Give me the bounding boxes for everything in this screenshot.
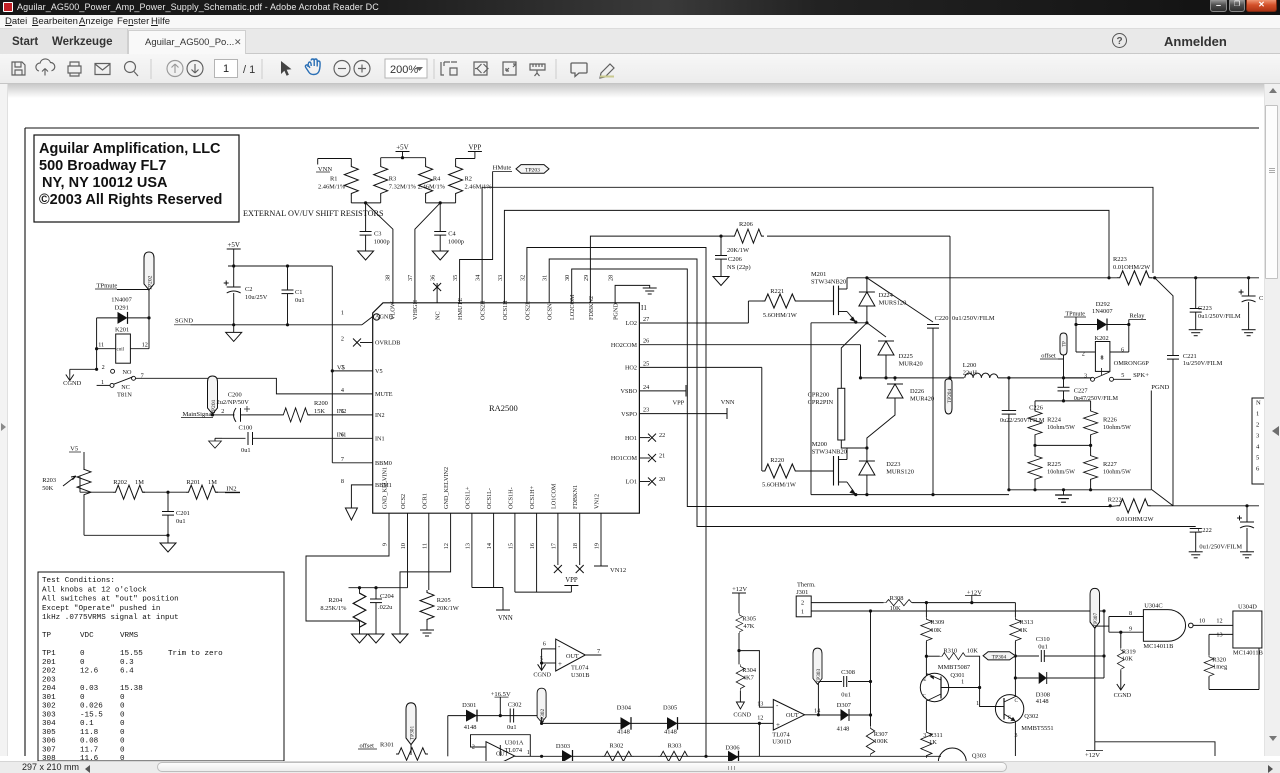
wire pin26 HO2COM to phase — [639, 344, 860, 346]
wire pin30 bus down right (to diode rail) — [572, 269, 706, 507]
svg-text:LO1: LO1 — [626, 479, 637, 486]
svg-text:0.01OHM/2W: 0.01OHM/2W — [1116, 516, 1154, 523]
svg-text:RA2500: RA2500 — [489, 403, 518, 413]
svg-text:204: 204 — [42, 685, 56, 693]
svg-text:0u1: 0u1 — [1038, 644, 1048, 651]
svg-text:OCS2: OCS2 — [400, 494, 407, 509]
svg-text:OUT: OUT — [566, 653, 579, 660]
svg-text:10K: 10K — [967, 648, 978, 655]
zoom out icon — [334, 61, 350, 77]
wire R4-R2 bottom junction — [425, 196, 427, 203]
svg-text:307: 307 — [42, 746, 56, 754]
svg-text:23: 23 — [643, 407, 649, 414]
save icon — [12, 62, 25, 75]
svg-text:R320: R320 — [1212, 657, 1226, 664]
svg-text:VPP: VPP — [565, 577, 578, 584]
opamp U301B TL074 — [556, 639, 586, 671]
svg-text:+: + — [558, 660, 562, 668]
svg-text:31: 31 — [542, 275, 549, 281]
wire pin33 bus to R223 left — [504, 210, 1109, 302]
capacitor C201 — [167, 492, 169, 511]
zoom in icon — [354, 61, 370, 77]
svg-text:All knobs at 12 o'clock: All knobs at 12 o'clock — [42, 586, 147, 594]
capacitor C224 polarized (page edge) — [1248, 278, 1250, 296]
svg-text:D292: D292 — [1096, 301, 1110, 308]
svg-text:U301B: U301B — [571, 672, 589, 679]
wire zobel mid rail — [1035, 444, 1091, 446]
wire BBM0 pin7 — [332, 462, 372, 464]
svg-text:R226: R226 — [1103, 417, 1117, 424]
svg-text:0: 0 — [120, 720, 125, 728]
svg-text:0u1: 0u1 — [507, 724, 517, 731]
svg-text:C200: C200 — [228, 392, 242, 399]
svg-text:47K: 47K — [743, 623, 754, 630]
svg-text:SGND: SGND — [175, 318, 193, 325]
svg-text:8.25K/1%: 8.25K/1% — [320, 605, 347, 612]
svg-text:OCS1L-: OCS1L- — [486, 488, 493, 509]
svg-text:MMBT5087: MMBT5087 — [938, 664, 971, 671]
svg-text:10ohm/5W: 10ohm/5W — [1047, 469, 1075, 476]
svg-text:0u1: 0u1 — [841, 692, 851, 699]
svg-text:TP302: TP302 — [540, 709, 546, 724]
svg-text:50K: 50K — [42, 485, 53, 492]
svg-text:D303: D303 — [556, 743, 570, 750]
svg-text:MC14011B: MC14011B — [1143, 643, 1173, 650]
ground CGND R304 — [736, 702, 744, 709]
svg-text:TL074: TL074 — [571, 665, 589, 672]
svg-text:coil: coil — [117, 348, 125, 353]
svg-text:FDBKN2: FDBKN2 — [588, 296, 595, 320]
svg-text:OCS1H-: OCS1H- — [507, 487, 514, 509]
wire R223 right to caps — [1151, 277, 1260, 279]
test point TP307 — [1090, 588, 1100, 628]
wire pins13-14 to VNN — [471, 513, 473, 587]
wire J301 pin1 right — [811, 610, 1104, 612]
wire R223 rail — [867, 277, 1117, 279]
svg-text:C204: C204 — [380, 593, 395, 600]
wire R221 to M201 gate — [796, 300, 834, 302]
wire pin34 bus to R223 right — [482, 187, 1153, 302]
opamp U301A TL074 (clipped) — [486, 742, 515, 770]
wire zobel bottom rail — [1009, 489, 1151, 491]
svg-text:6: 6 — [1121, 347, 1124, 354]
svg-text:FDBKN1: FDBKN1 — [572, 485, 579, 509]
power VN12 — [594, 565, 608, 567]
svg-text:1meg: 1meg — [1213, 664, 1228, 671]
svg-text:20K/1W: 20K/1W — [727, 247, 750, 254]
svg-text:R307: R307 — [874, 731, 889, 738]
hand icon — [305, 59, 320, 75]
svg-text:OVRLDB: OVRLDB — [375, 340, 400, 347]
wire J301 pin2 to R308 — [811, 602, 883, 604]
svg-text:R220: R220 — [770, 457, 784, 464]
wire pin31 bus down right (C222 line) — [549, 259, 1195, 527]
svg-text:offset: offset — [360, 743, 375, 750]
svg-text:0u1/250V/FILM: 0u1/250V/FILM — [1199, 544, 1242, 551]
svg-text:R303: R303 — [668, 743, 682, 750]
capacitor C1 — [287, 266, 289, 290]
svg-text:NC: NC — [121, 384, 130, 391]
wire pin9 GND_KELVIN1 — [306, 513, 389, 631]
svg-text:0u1/250V/FILM: 0u1/250V/FILM — [952, 315, 995, 322]
svg-text:STW34NB20: STW34NB20 — [812, 449, 847, 456]
svg-text:LO2: LO2 — [626, 320, 637, 327]
page fit icon — [441, 62, 457, 75]
ground below C201 — [160, 543, 176, 552]
svg-text:18: 18 — [572, 543, 579, 549]
svg-text:J301: J301 — [796, 589, 808, 596]
svg-text:NC: NC — [435, 311, 442, 320]
svg-text:201: 201 — [42, 659, 56, 667]
svg-text:OCS2L: OCS2L — [524, 301, 531, 320]
svg-text:I1: I1 — [641, 304, 647, 312]
svg-text:D304: D304 — [617, 705, 632, 712]
wire TPmute to K201 — [117, 289, 149, 291]
svg-text:2.46M/1%: 2.46M/1% — [418, 184, 446, 191]
svg-text:5: 5 — [1256, 455, 1260, 462]
search icon — [125, 62, 136, 73]
svg-text:CGND: CGND — [733, 712, 751, 719]
svg-text:7: 7 — [597, 648, 600, 655]
svg-text:STW34NB20: STW34NB20 — [811, 279, 846, 286]
svg-text:R221: R221 — [770, 288, 784, 295]
svg-text:D307: D307 — [837, 702, 852, 709]
wire C308 row — [817, 682, 819, 716]
svg-text:8: 8 — [1129, 610, 1132, 617]
svg-text:1: 1 — [341, 310, 344, 317]
svg-text:37: 37 — [407, 275, 414, 281]
wire bottom rail 756 — [515, 755, 941, 757]
svg-text:V5: V5 — [337, 364, 346, 371]
mail icon — [95, 64, 110, 75]
svg-text:R1: R1 — [330, 176, 337, 183]
svg-text:0.3: 0.3 — [120, 659, 134, 667]
svg-text:VDC: VDC — [80, 632, 94, 640]
svg-text:33: 33 — [497, 275, 504, 281]
wire R320 bottom to U304D — [1209, 689, 1259, 691]
svg-text:U304C: U304C — [1144, 603, 1162, 610]
svg-text:7.32M/1%: 7.32M/1% — [389, 184, 417, 191]
svg-text:MUR420: MUR420 — [910, 396, 934, 403]
wire x1104 vertical — [1103, 611, 1105, 678]
svg-text:IN2: IN2 — [375, 412, 385, 419]
svg-text:27: 27 — [643, 316, 649, 323]
wire R206 to output node — [949, 236, 951, 378]
wire V5 to pin3 — [332, 370, 372, 372]
svg-text:Trim to zero: Trim to zero — [168, 650, 223, 658]
svg-text:N: N — [1256, 400, 1261, 407]
wire pot bottom rail — [84, 534, 168, 536]
svg-text:offset: offset — [1041, 353, 1056, 360]
wire pin32 bus down right (R222 sense) — [527, 248, 706, 757]
svg-text:E: E — [923, 678, 926, 683]
svg-text:R205: R205 — [437, 597, 451, 604]
ground below C223 — [1189, 330, 1203, 336]
svg-text:13: 13 — [464, 543, 471, 549]
svg-text:302: 302 — [42, 703, 56, 711]
svg-text:TP304: TP304 — [992, 654, 1007, 660]
svg-text:HMUTE: HMUTE — [457, 298, 464, 320]
svg-text:Relay: Relay — [1130, 313, 1146, 320]
svg-text:2: 2 — [341, 336, 344, 343]
svg-text:3: 3 — [1084, 373, 1087, 380]
svg-text:C302: C302 — [508, 702, 522, 709]
ground arrow BBM1 — [345, 508, 357, 520]
svg-text:R202: R202 — [113, 479, 127, 486]
svg-text:R308: R308 — [890, 595, 904, 602]
svg-text:10K: 10K — [931, 627, 942, 634]
svg-text:Except "Operate" pushed in: Except "Operate" pushed in — [42, 605, 160, 613]
ground below C3 — [358, 251, 374, 260]
svg-text:TPmute: TPmute — [1065, 311, 1085, 318]
svg-text:Q303: Q303 — [972, 753, 986, 760]
test point TP304 tag — [983, 652, 1015, 660]
ground below R204 — [352, 634, 368, 643]
svg-text:6.4: 6.4 — [120, 668, 134, 676]
wire pin28 PGND to ground — [615, 285, 650, 302]
svg-text:V5: V5 — [375, 368, 383, 375]
svg-text:R223: R223 — [1113, 256, 1127, 263]
ground below C225 — [1240, 552, 1254, 558]
svg-text:U301D: U301D — [772, 739, 791, 746]
svg-text:0.01OHM/2W: 0.01OHM/2W — [1113, 264, 1151, 271]
svg-text:1u/250V/FILM: 1u/250V/FILM — [1183, 360, 1223, 367]
svg-text:D291: D291 — [115, 305, 129, 312]
ground CGND (switch) — [70, 368, 97, 370]
svg-text:500 Broadway FL7: 500 Broadway FL7 — [39, 158, 166, 174]
svg-text:MUR420: MUR420 — [899, 361, 923, 368]
test point TP204 — [945, 379, 952, 414]
svg-text:TL074: TL074 — [772, 732, 790, 739]
svg-text:R304: R304 — [742, 667, 757, 674]
svg-text:306: 306 — [42, 738, 56, 746]
svg-text:TP202: TP202 — [148, 275, 154, 290]
svg-text:MC14011B: MC14011B — [1233, 650, 1263, 657]
pin18 no-connect — [579, 513, 581, 565]
svg-text:MURS120: MURS120 — [879, 300, 907, 307]
highlighter icon — [600, 64, 614, 78]
wire junction to pin38 (VLOW) — [366, 203, 393, 303]
svg-text:1000p: 1000p — [374, 239, 390, 246]
svg-text:L200: L200 — [963, 362, 977, 369]
test point TP301 — [406, 703, 416, 745]
test point TP205 — [1060, 333, 1067, 355]
svg-text:5: 5 — [1121, 372, 1124, 379]
svg-text:VHIGH: VHIGH — [412, 300, 419, 320]
svg-text:IN2: IN2 — [337, 408, 347, 415]
wire zobel top rail — [1035, 400, 1091, 402]
wire R2 top to VPP — [456, 158, 475, 160]
cloud upload icon — [36, 59, 55, 71]
svg-text:R227: R227 — [1103, 461, 1118, 468]
svg-text:V5: V5 — [70, 446, 79, 453]
svg-text:VNN: VNN — [721, 399, 735, 406]
svg-text:C: C — [1015, 699, 1019, 704]
svg-text:R200: R200 — [314, 400, 328, 407]
select arrow icon — [281, 61, 291, 76]
svg-text:TP307: TP307 — [1093, 613, 1099, 628]
svg-text:M201: M201 — [811, 271, 826, 278]
capacitor C206 — [720, 236, 722, 255]
svg-text:32: 32 — [519, 275, 526, 281]
svg-text:D225: D225 — [899, 353, 913, 360]
wire L200 to output network — [998, 377, 1092, 379]
svg-text:3: 3 — [1015, 733, 1018, 739]
svg-text:4148: 4148 — [664, 729, 677, 736]
svg-text:14: 14 — [814, 708, 820, 715]
svg-text:PGND: PGND — [1151, 384, 1169, 391]
svg-text:4: 4 — [341, 387, 344, 394]
title block box — [34, 135, 239, 222]
wire R222 right diagonal to PGND — [1151, 489, 1173, 506]
ground left of C100 — [215, 437, 222, 439]
svg-text:MUTE: MUTE — [375, 391, 393, 398]
pin21 no-connect — [639, 457, 650, 459]
svg-text:OCS1H: OCS1H — [502, 300, 509, 320]
resistor R2 — [455, 159, 457, 165]
svg-text:0u22/250V/FILM: 0u22/250V/FILM — [1000, 417, 1045, 424]
test point TP302 — [537, 688, 546, 722]
svg-text:12: 12 — [142, 342, 148, 349]
svg-text:VRMS: VRMS — [120, 632, 139, 640]
svg-text:C227: C227 — [1074, 388, 1089, 395]
svg-text:6: 6 — [1256, 466, 1260, 473]
svg-text:TP: TP — [1063, 341, 1068, 347]
svg-text:Test Conditions:: Test Conditions: — [42, 577, 115, 585]
svg-text:LO1COM: LO1COM — [550, 483, 557, 509]
svg-text:11: 11 — [421, 543, 428, 549]
test conditions box — [38, 572, 284, 761]
svg-text:28: 28 — [608, 275, 615, 281]
wire +12V bottom right — [1095, 742, 1215, 756]
wire phase node to L200 — [861, 377, 965, 379]
svg-text:0u1: 0u1 — [176, 518, 186, 525]
svg-text:VPP: VPP — [468, 144, 481, 152]
svg-text:20: 20 — [659, 476, 665, 483]
svg-text:TP204: TP204 — [947, 389, 953, 404]
wire U301A +input — [499, 745, 501, 756]
svg-text:C206: C206 — [728, 256, 742, 263]
svg-text:200%: 200% — [390, 64, 418, 76]
svg-text:Therm.: Therm. — [797, 582, 816, 589]
wire PGND vertical — [1150, 391, 1152, 490]
svg-text:OCS1H+: OCS1H+ — [529, 485, 536, 509]
svg-text:2: 2 — [1256, 422, 1259, 429]
prev page icon — [167, 61, 183, 77]
svg-text:22: 22 — [659, 432, 665, 439]
wire R310 to Q302 base — [966, 656, 1001, 706]
svg-text:0: 0 — [120, 729, 125, 737]
wire U301D pin12 corner to bottom rail — [758, 723, 760, 756]
svg-text:+12V: +12V — [1085, 752, 1100, 759]
svg-text:203: 203 — [42, 676, 56, 684]
ground below C2 — [233, 325, 235, 333]
svg-text:21: 21 — [659, 453, 665, 460]
comment bubble icon — [571, 63, 587, 77]
power VNN bottom — [496, 609, 510, 611]
svg-text:R310: R310 — [943, 648, 957, 655]
wire U301A feedback loop — [471, 735, 531, 756]
svg-text:OUT: OUT — [786, 712, 799, 719]
svg-text:10ohm/5W: 10ohm/5W — [1103, 469, 1131, 476]
svg-text:VPP: VPP — [673, 400, 685, 407]
svg-text:100K: 100K — [874, 738, 889, 745]
svg-text:IN2: IN2 — [226, 486, 236, 493]
wire NAND out to U304D — [1193, 624, 1233, 626]
svg-text:10: 10 — [1199, 618, 1205, 625]
svg-text:R204: R204 — [328, 597, 343, 604]
pin22 no-connect — [639, 437, 650, 439]
svg-text:0: 0 — [120, 738, 125, 746]
svg-text:All switches at "out" position: All switches at "out" position — [42, 596, 179, 604]
svg-text:2: 2 — [801, 600, 804, 607]
wire diode rail to U301D pin12 — [448, 715, 542, 717]
svg-text:-: - — [558, 643, 561, 651]
svg-text:25: 25 — [643, 360, 649, 367]
svg-text:R4: R4 — [433, 176, 441, 183]
svg-text:14: 14 — [486, 543, 493, 549]
print icon — [68, 62, 81, 76]
op-chip RA2500 body — [373, 303, 640, 513]
wire output node to relay contact — [1062, 376, 1065, 379]
svg-text:C1: C1 — [295, 289, 302, 296]
svg-text:0: 0 — [120, 703, 125, 711]
svg-text:D226: D226 — [910, 388, 924, 395]
svg-text:R3: R3 — [389, 176, 396, 183]
svg-text:SPK+: SPK+ — [1133, 372, 1149, 379]
svg-text:12.6: 12.6 — [80, 668, 99, 676]
svg-text:CPR2PIN: CPR2PIN — [808, 399, 834, 406]
ground CGND R319 — [1117, 684, 1125, 690]
svg-text:2: 2 — [1082, 351, 1085, 358]
svg-text:OCS2H: OCS2H — [480, 300, 487, 320]
svg-text:15.55: 15.55 — [120, 650, 143, 658]
svg-text:M200: M200 — [812, 441, 827, 448]
svg-text:11.7: 11.7 — [80, 746, 98, 754]
svg-text:10ohm/5W: 10ohm/5W — [1047, 424, 1075, 431]
svg-text:TP1: TP1 — [42, 650, 56, 658]
svg-text:C220: C220 — [935, 315, 949, 322]
svg-text:Q302: Q302 — [1024, 713, 1038, 720]
svg-text:R206: R206 — [739, 221, 753, 228]
svg-text:R313: R313 — [1020, 619, 1034, 626]
svg-text:D301: D301 — [462, 702, 476, 709]
svg-text:1N4007: 1N4007 — [111, 297, 132, 304]
svg-text:0: 0 — [80, 659, 85, 667]
capacitor C225 polarized (page edge) — [1246, 506, 1248, 522]
svg-text:MMBT5551: MMBT5551 — [1021, 725, 1053, 732]
svg-text:0u1/250V/FILM: 0u1/250V/FILM — [1198, 313, 1241, 320]
svg-text:D223: D223 — [886, 461, 900, 468]
wire R220 to M200 gate — [796, 470, 834, 472]
svg-text:C308: C308 — [841, 669, 855, 676]
svg-text:4148: 4148 — [1036, 698, 1049, 705]
ground zobel — [1063, 490, 1065, 495]
wire R204/C204/pin10 rail — [349, 587, 408, 589]
ground I1 — [643, 288, 657, 294]
capacitor C2 (10u/25V) — [233, 266, 235, 287]
svg-text:12: 12 — [1216, 618, 1222, 625]
svg-text:CGND: CGND — [63, 380, 81, 387]
svg-text:0: 0 — [80, 650, 85, 658]
test point TP201 — [208, 376, 218, 414]
svg-text:C100: C100 — [239, 425, 253, 432]
svg-text:MainSignal: MainSignal — [183, 411, 214, 418]
svg-text:OUT: OUT — [496, 752, 508, 758]
svg-text:2u2/NP/50V: 2u2/NP/50V — [217, 399, 250, 406]
node M201 drain junction — [865, 276, 868, 279]
svg-text:T81N: T81N — [117, 392, 132, 399]
